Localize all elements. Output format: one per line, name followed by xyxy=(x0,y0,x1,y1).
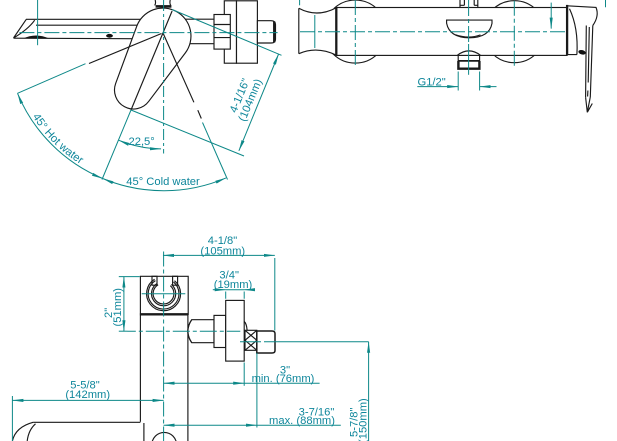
dimension 5-7/8 vertical line with arrow xyxy=(368,342,370,441)
cartridge stem above handle xyxy=(155,0,171,5)
3 min extension line xyxy=(243,363,245,386)
C-clip inner arcs xyxy=(152,283,176,305)
wall stub pipe end cap thick edge xyxy=(273,22,275,43)
spout nozzle left edge xyxy=(298,8,300,53)
diverter knob on top of body xyxy=(460,0,478,8)
valve knob (side view) xyxy=(257,331,275,353)
body left end cap thick line xyxy=(335,8,337,56)
vertical centerline G1/2 outlet xyxy=(468,0,470,44)
lever blade tip xyxy=(586,97,593,112)
dimension 4-1/16 extension line top xyxy=(172,10,282,56)
3-7/16 extension line xyxy=(256,353,258,428)
wall stub pipe (front view) xyxy=(257,21,275,43)
G1/2 extension line left xyxy=(457,72,459,91)
rail post right edge xyxy=(187,315,189,441)
extension line 22.5 (teal lower part) xyxy=(102,110,131,180)
extension line hot (teal) xyxy=(18,64,86,94)
5-7/8 top extension line xyxy=(240,341,369,343)
tub spout outlet dark crescent xyxy=(23,35,49,38)
left wall flange circle (top view) xyxy=(324,0,387,63)
svg-text:45° Hot water: 45° Hot water xyxy=(30,111,86,166)
wall plate 2 (front view) xyxy=(237,1,258,63)
dimension 4-1/16 line with arrows xyxy=(239,54,279,151)
spout nozzle top concave edge xyxy=(299,8,337,13)
svg-text:min. (76mm): min. (76mm) xyxy=(252,373,315,385)
arc 45 deg cold water xyxy=(103,178,226,191)
holder block (side view) xyxy=(140,276,188,315)
diverter knob circle under spout xyxy=(152,432,177,441)
C-clip jaw tab left xyxy=(152,276,157,285)
threaded nipple with cross marks xyxy=(245,330,257,350)
label 45 Hot water (curved) xyxy=(29,111,98,174)
down arrow to body centerline xyxy=(550,3,552,29)
svg-text:(19mm): (19mm) xyxy=(214,279,253,291)
C-clip horizontal centerline xyxy=(142,293,186,295)
svg-text:(51mm): (51mm) xyxy=(112,288,124,327)
dimension 3/4 line xyxy=(213,289,226,291)
lever handle capsule (front view) xyxy=(114,8,190,109)
G1/2 collar line xyxy=(458,60,479,62)
phantom line handle axis (22.5 deg) black part xyxy=(131,11,172,110)
body right end cap thick line xyxy=(566,5,568,55)
svg-text:G1/2": G1/2" xyxy=(418,76,446,88)
tub spout tip chamfer lines xyxy=(14,19,35,38)
svg-text:(150mm): (150mm) xyxy=(358,398,370,441)
waterfall spade opening (top view) xyxy=(447,20,492,38)
arc 22.5 deg xyxy=(119,140,161,149)
extension line top right xyxy=(605,0,607,7)
dimension 2in line with arrows xyxy=(123,277,125,332)
spout nozzle bottom concave edge xyxy=(299,50,337,55)
tub spout second line xyxy=(36,24,150,26)
C-clip jaw tab right xyxy=(173,276,178,285)
G1/2 extension line right xyxy=(479,72,481,91)
C-clip outer arcs xyxy=(147,279,181,310)
svg-text:(105mm): (105mm) xyxy=(200,245,245,257)
phantom line cold extreme (black segments) xyxy=(163,33,201,119)
cartridge stem bar xyxy=(156,5,172,8)
extension line cold (teal) xyxy=(203,123,228,180)
valve cone to wall xyxy=(188,320,214,343)
tub spout nose outer arc xyxy=(12,422,33,441)
valve centerline / 2in bottom extension xyxy=(119,330,241,332)
2in top extension line xyxy=(119,276,140,278)
spout nozzle piece (top view) xyxy=(299,8,337,53)
4-1/8 right extension line xyxy=(274,258,276,331)
horizontal centerline (front view) xyxy=(19,32,277,34)
spout outlet down arrow xyxy=(37,0,39,45)
G1/2 dimension line left with arrow xyxy=(417,86,458,88)
dimension 4-1/16 extension line bottom xyxy=(131,110,244,156)
G1/2 threaded nipple (thick) xyxy=(458,61,479,69)
wall escutcheon disc (side view) xyxy=(226,300,245,361)
vertical centerline right flange xyxy=(513,1,515,66)
vertical centerline through pivot xyxy=(163,0,165,154)
5-5/8 left extension line xyxy=(11,396,13,441)
dimension 5-5/8 line with arrows xyxy=(12,399,163,401)
valve collar xyxy=(214,315,226,347)
svg-text:max. (88mm): max. (88mm) xyxy=(269,415,335,427)
rail post left edge xyxy=(139,315,141,422)
svg-text:(142mm): (142mm) xyxy=(65,389,110,401)
hex nut facet lines xyxy=(214,25,230,38)
svg-text:45° Cold water: 45° Cold water xyxy=(126,176,200,188)
holder block bottom thick line xyxy=(140,313,188,315)
faucet body (top view) xyxy=(336,8,567,56)
tub spout small hole dot xyxy=(106,34,113,38)
tub spout (front view) top edge xyxy=(26,18,152,20)
right wall flange circle (top view) xyxy=(483,1,545,63)
3 min text underline xyxy=(244,382,319,384)
tub spout nose inner arc xyxy=(27,424,35,441)
svg-text:22,5°: 22,5° xyxy=(129,136,155,148)
arc 45 deg hot water xyxy=(18,93,103,178)
set screw hole (dark) xyxy=(578,49,586,55)
phantom line hot extreme (black part) xyxy=(89,34,162,64)
3/4 extension lines xyxy=(226,292,245,299)
lever blade (top view) xyxy=(586,26,593,98)
short extension line top left of top view xyxy=(299,0,301,5)
spout nozzle centerline (top view) xyxy=(314,15,316,48)
mounting hex nut (front view) xyxy=(214,15,230,50)
dimension 3-7/16 max line with arrows xyxy=(164,424,257,426)
G1/2 dimension line right with arrow xyxy=(480,86,497,88)
handle cap (top view right) xyxy=(567,6,597,55)
tub spout bottom edge xyxy=(14,37,151,40)
3-7/16 text underline xyxy=(257,424,341,426)
spout back line xyxy=(143,423,145,441)
body neck (front view) xyxy=(180,19,214,44)
tub spout top edge (side view) xyxy=(33,421,140,423)
rail post centerline (vertical) xyxy=(163,252,165,441)
dimension 4-1/8 line with arrows xyxy=(163,254,275,256)
G1/2 outlet collar xyxy=(458,55,479,61)
spade inner dish line xyxy=(456,35,481,37)
horizontal centerline (top view) xyxy=(300,31,567,33)
dimension 3 min line with arrows xyxy=(164,382,245,384)
G1/2 outlet dome xyxy=(457,51,480,55)
vertical centerline left flange xyxy=(354,0,356,67)
wall plate 1 (front view) xyxy=(224,1,236,63)
